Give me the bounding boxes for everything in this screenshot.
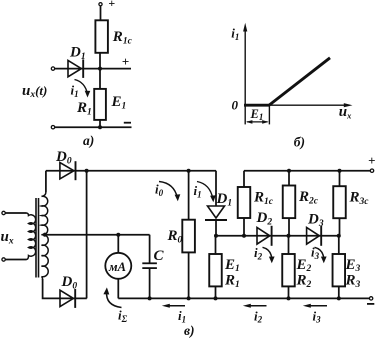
svg-text:мА: мА	[108, 260, 126, 274]
svg-text:R1c: R1c	[253, 190, 274, 207]
svg-text:R2c: R2c	[298, 189, 319, 206]
svg-text:D3: D3	[307, 212, 324, 229]
svg-text:i2: i2	[254, 245, 263, 261]
svg-text:а): а)	[83, 133, 94, 148]
svg-text:D0: D0	[61, 274, 78, 291]
svg-text:б): б)	[294, 135, 305, 150]
svg-text:i0: i0	[155, 182, 164, 198]
svg-text:i2: i2	[254, 308, 263, 324]
svg-text:i1: i1	[231, 26, 239, 42]
svg-text:D1: D1	[216, 191, 233, 208]
svg-text:i1: i1	[194, 183, 202, 199]
svg-text:D1: D1	[69, 45, 86, 62]
svg-text:i3: i3	[313, 308, 322, 324]
svg-text:R1: R1	[76, 100, 92, 117]
svg-text:D2: D2	[256, 210, 273, 227]
svg-text:R3c: R3c	[349, 190, 370, 207]
svg-text:R3: R3	[345, 273, 361, 290]
svg-text:+: +	[122, 54, 129, 69]
svg-text:E1: E1	[111, 94, 127, 111]
svg-text:ux: ux	[1, 229, 14, 246]
svg-text:D0: D0	[55, 149, 72, 166]
svg-text:R0: R0	[167, 228, 183, 245]
svg-text:+: +	[368, 153, 375, 168]
svg-text:R2: R2	[296, 273, 312, 290]
svg-text:iΣ: iΣ	[118, 308, 128, 325]
svg-text:E1: E1	[250, 107, 264, 122]
svg-text:0: 0	[232, 98, 239, 113]
svg-text:C: C	[154, 248, 165, 264]
svg-text:R1c: R1c	[112, 29, 133, 46]
svg-text:ux: ux	[339, 104, 352, 120]
svg-text:i1: i1	[178, 308, 186, 324]
svg-text:в): в)	[184, 323, 195, 338]
svg-text:ux(t): ux(t)	[22, 83, 47, 100]
svg-text:R1: R1	[224, 273, 240, 290]
svg-text:+: +	[108, 0, 115, 10]
svg-text:i1: i1	[71, 83, 79, 99]
